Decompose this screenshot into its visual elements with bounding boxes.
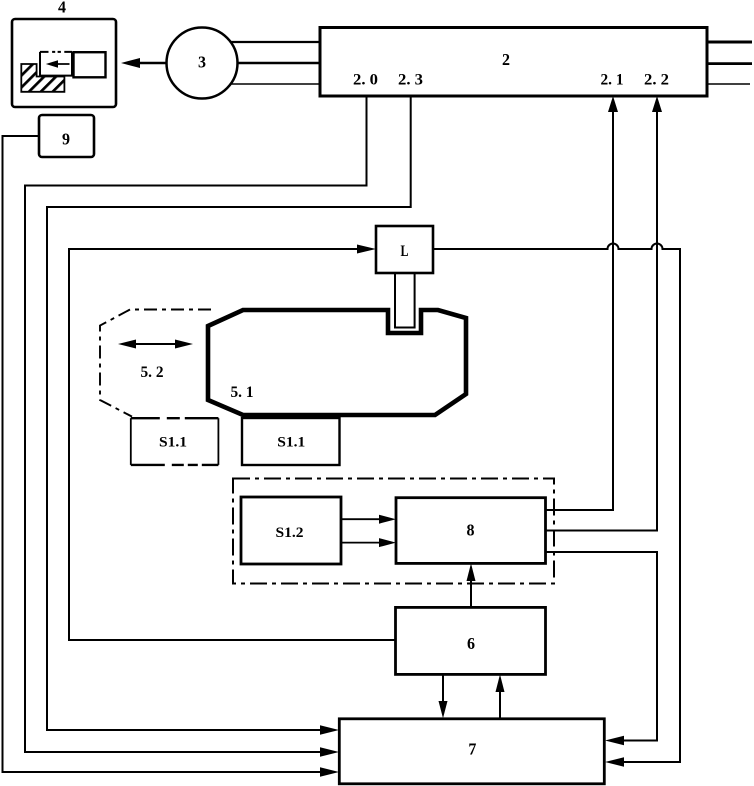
svg-text:2. 1: 2. 1	[601, 72, 624, 89]
svg-text:2: 2	[502, 50, 510, 69]
svg-text:3: 3	[198, 53, 206, 72]
svg-text:S1.1: S1.1	[277, 434, 305, 450]
svg-text:5. 2: 5. 2	[141, 364, 164, 381]
svg-text:5. 1: 5. 1	[231, 384, 254, 401]
svg-text:2. 0: 2. 0	[353, 72, 378, 89]
svg-text:8: 8	[467, 521, 475, 540]
svg-text:2. 2: 2. 2	[644, 72, 669, 89]
svg-text:S1.1: S1.1	[159, 434, 187, 450]
svg-text:4: 4	[58, 0, 66, 17]
svg-text:6: 6	[467, 634, 475, 653]
svg-text:L: L	[401, 243, 409, 260]
svg-text:7: 7	[468, 740, 476, 759]
svg-text:9: 9	[62, 130, 70, 149]
svg-text:2. 3: 2. 3	[398, 72, 423, 89]
svg-text:S1.2: S1.2	[276, 525, 304, 541]
